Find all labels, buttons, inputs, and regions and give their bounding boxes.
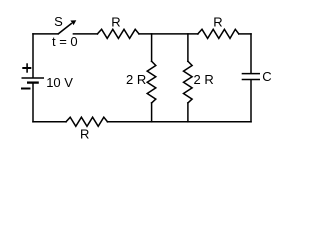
- wire branch1 lower: [151, 103, 153, 122]
- wire bottom right segment: [108, 121, 252, 123]
- resistor 2R left (vertical): [147, 61, 156, 103]
- battery plus sign: [22, 63, 31, 72]
- wire left vertical upper: [32, 34, 34, 78]
- resistor 2R right (vertical): [184, 61, 193, 103]
- svg-text:R: R: [80, 127, 89, 142]
- wire branch2 upper: [187, 34, 189, 61]
- resistor R2 (top right): [198, 29, 239, 38]
- svg-text:10 V: 10 V: [46, 75, 73, 90]
- svg-text:2 R: 2 R: [194, 72, 214, 87]
- wire branch2 lower: [187, 103, 189, 122]
- svg-text:S: S: [54, 14, 63, 29]
- wire right vertical lower: [250, 80, 252, 122]
- wire right vertical upper: [250, 34, 252, 73]
- svg-text:C: C: [262, 69, 271, 84]
- wire top after R2: [239, 33, 251, 35]
- battery V1 top plate (+, long): [22, 77, 45, 79]
- wire top-left segment: [33, 33, 58, 35]
- wire top after switch: [73, 33, 97, 35]
- svg-text:2 R: 2 R: [126, 72, 146, 87]
- battery V1 bottom plate (-, short thick): [27, 81, 39, 83]
- capacitor C top plate: [242, 73, 260, 75]
- svg-text:R: R: [213, 14, 222, 29]
- resistor R3 (bottom): [66, 117, 108, 126]
- switch S blade: [58, 24, 71, 34]
- capacitor C bottom plate: [242, 79, 260, 81]
- switch arrowhead: [70, 20, 76, 25]
- resistor R1 (top left): [97, 29, 139, 38]
- wire top between R1 and R2: [139, 33, 198, 35]
- wire bottom left segment: [33, 121, 66, 123]
- battery minus sign: [21, 88, 31, 90]
- svg-text:t = 0: t = 0: [52, 34, 78, 49]
- wire branch1 upper: [151, 34, 153, 61]
- svg-text:R: R: [111, 14, 120, 29]
- wire left vertical lower: [32, 84, 34, 122]
